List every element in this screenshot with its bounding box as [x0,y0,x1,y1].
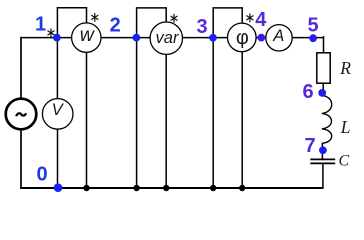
svg-text:R: R [339,58,351,78]
ammeter A [266,25,292,51]
wire: phase-meter voltage-coil loop [213,8,242,38]
wire: ammeter to right corner [292,37,324,39]
junction dot at wattmeter bottom [83,185,89,191]
wire: wattmeter to varmeter [101,37,150,39]
polarity asterisk at varmeter [171,14,177,22]
wire: source bottom to bus [20,129,22,188]
svg-text:1: 1 [35,14,46,36]
svg-text:4: 4 [255,9,267,31]
wire: wattmeter bottom to bus [86,52,88,188]
voltmeter V [42,99,73,130]
wire: main top line from left corner to wattmeter [21,37,72,39]
wire: varmeter bottom to bus [165,54,167,188]
wire: left edge down to source [20,37,22,99]
varmeter VAR [150,22,182,54]
node 2 [133,34,141,42]
inductor L [322,95,332,143]
svg-text:L: L [340,117,351,137]
svg-text:6: 6 [302,81,313,103]
wire: inductor to node 7 and capacitor [321,143,323,159]
node 5 [309,34,317,42]
node 7 [319,146,327,154]
wire: node1 down to voltmeter [56,38,58,99]
node 4 [257,34,265,42]
wire: wattmeter voltage-coil loop [57,8,86,38]
junction dot at varmeter bottom [163,185,169,191]
node 3 [209,34,217,42]
svg-text:3: 3 [196,16,207,38]
junction dot at phase-meter bottom [239,185,245,191]
wire: phase-meter bottom to bus [241,52,243,188]
polarity asterisk at phase meter [247,14,253,22]
wire: capacitor bottom to bus [322,164,324,188]
wire: phase meter to ammeter [256,37,266,39]
wattmeter W [72,23,101,52]
AC source G1 [6,99,37,130]
svg-text:7: 7 [304,135,315,157]
polarity asterisk at node 1 [48,29,54,37]
svg-text:5: 5 [307,15,318,37]
capacitor C [310,159,335,163]
phase meter PHI [228,23,257,52]
svg-text:w: w [80,24,96,46]
svg-text:0: 0 [36,163,47,185]
wire: node2 down to bus [136,38,138,188]
wire: varmeter to phase meter [183,37,228,39]
svg-text:2: 2 [110,15,121,37]
svg-text:φ: φ [236,27,249,49]
node 6 [318,89,326,97]
wire: voltmeter bottom to bus node 0 [57,129,59,188]
wire: resistor to node 6 [322,83,324,96]
junction dot at node2 branch [133,185,139,191]
polarity asterisk at wattmeter [92,14,98,22]
node 1 [53,34,61,42]
svg-text:var: var [156,29,180,47]
wire: bottom bus [20,187,324,189]
wire: right branch corner down to resistor [323,37,326,53]
node 0 [54,183,63,192]
wire: node3 down to bus [212,38,214,188]
wire: varmeter voltage-coil loop [137,8,167,38]
svg-text:C: C [338,153,349,170]
resistor R [317,53,330,83]
svg-text:A: A [272,27,284,45]
junction dot at node3 branch [210,185,216,191]
